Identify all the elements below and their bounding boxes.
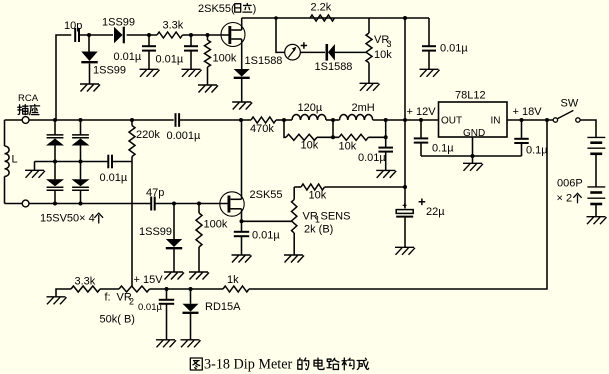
ground (198, 85, 218, 93)
wire 3.3k to gate (183, 34, 229, 36)
wire SW to battery (580, 120, 596, 137)
wire source to VR1 wiper (242, 220, 292, 222)
switch SW (553, 98, 580, 123)
wire meter to D3 (300, 51, 325, 53)
svg-text:10k: 10k (339, 141, 357, 153)
wire D1 to ground (89, 64, 91, 85)
meter M1 (285, 42, 307, 60)
svg-text:): ) (253, 3, 257, 15)
ground stub bottom left (56, 289, 71, 297)
caption (190, 357, 368, 373)
wire 47p to gate (155, 203, 229, 205)
svg-text:10k: 10k (309, 190, 327, 202)
transistor Q1 2SK55 (221, 23, 245, 47)
filter mid tie (331, 120, 335, 139)
wire Q2 drain up (241, 120, 243, 199)
node S (79, 202, 83, 206)
capacitor C6 0.01u (100, 155, 128, 184)
wire mid column (404, 18, 406, 209)
wire IN side (507, 119, 553, 121)
svg-text:3: 3 (387, 39, 392, 49)
svg-text:78L12: 78L12 (455, 90, 486, 102)
battery B2 006P (587, 187, 605, 204)
wire main rail cont (179, 119, 251, 121)
wire (373, 119, 439, 121)
ground (587, 217, 607, 225)
wire D5 to ground (173, 249, 175, 272)
svg-text:2.2k: 2.2k (311, 2, 332, 14)
wire top-left corner (56, 35, 71, 120)
potentiometer VR2 50k (100, 286, 150, 326)
wire C6 to column (112, 161, 132, 163)
ground stub (34, 162, 36, 171)
svg-text:1k: 1k (227, 274, 239, 286)
capacitor C8 0.01u (234, 230, 281, 256)
battery B1 006P (587, 137, 605, 153)
ground (232, 255, 252, 263)
ground (376, 170, 396, 178)
wire battery to ground (595, 204, 597, 217)
resistor R7 220k (129, 120, 160, 162)
wire Q1 drain up (241, 18, 243, 30)
capacitor C13 47p (146, 187, 164, 211)
node C (189, 33, 193, 37)
wire top rail (242, 17, 429, 19)
svg-text:1SS99: 1SS99 (93, 65, 126, 77)
svg-text:0.001µ: 0.001µ (167, 130, 202, 142)
wire bottom rail left (5, 203, 23, 205)
wire (368, 136, 385, 138)
svg-text:+ 12V: + 12V (407, 106, 437, 118)
resistor R3 2.2k (310, 2, 335, 22)
svg-text:0.01µ: 0.01µ (100, 172, 128, 184)
resistor R11 1k (223, 274, 249, 292)
svg-text:+ 15V: + 15V (134, 274, 164, 286)
potentiometer VR3 10k (366, 18, 392, 83)
wire main rail left (5, 119, 23, 121)
node R (53, 202, 57, 206)
wire supply rail right (249, 120, 547, 289)
svg-text:006P: 006P (557, 178, 583, 190)
svg-text:GND: GND (463, 128, 485, 139)
svg-text:2k (B): 2k (B) (304, 224, 333, 236)
ground (232, 102, 252, 110)
svg-text:2: 2 (129, 297, 134, 307)
capacitor C3 0.01u (156, 35, 199, 69)
svg-text:15SV50× 4: 15SV50× 4 (40, 213, 95, 225)
resistor R6 10k (339, 134, 369, 152)
node P (53, 160, 57, 164)
svg-text:1SS99: 1SS99 (139, 226, 172, 238)
inductor L (5, 120, 18, 204)
wire D3 to VR3 wiper (335, 51, 366, 53)
node J (239, 118, 243, 122)
svg-text:1S1588: 1S1588 (315, 61, 353, 73)
svg-text:50k( B): 50k( B) (100, 314, 135, 326)
node V (240, 219, 244, 223)
zener D6 RD15A (183, 289, 242, 313)
regulator U1 78L12 (439, 90, 508, 140)
RCA jack bottom pin (22, 200, 29, 207)
svg-text:0.1µ: 0.1µ (526, 145, 548, 157)
node O (419, 118, 423, 122)
svg-text:47p: 47p (146, 187, 164, 199)
svg-text:0.01µ: 0.01µ (440, 43, 468, 55)
svg-text:220k: 220k (136, 129, 160, 141)
capacitor C5 0.001u (167, 113, 202, 142)
transistor Q2 2SK55 (220, 189, 283, 216)
svg-text:2mH: 2mH (352, 102, 375, 114)
node T (172, 202, 176, 206)
ground (420, 69, 440, 77)
wire VR2 wiper column (131, 162, 133, 287)
svg-text:OUT: OUT (441, 116, 462, 127)
svg-text:SW: SW (561, 98, 579, 110)
inductor L2 2mH (340, 102, 375, 120)
wire between batteries (595, 154, 597, 187)
node U (197, 202, 201, 206)
svg-text:+ 18V: + 18V (513, 106, 543, 118)
svg-text:3.3k: 3.3k (75, 276, 96, 288)
ground (395, 247, 415, 255)
ground (284, 255, 304, 263)
node B (147, 33, 151, 37)
svg-text:0.01µ: 0.01µ (358, 152, 386, 164)
inductor L1 120u (292, 102, 326, 120)
svg-text:f:: f: (105, 292, 111, 304)
label RCA jack (18, 93, 40, 115)
node E (274, 16, 278, 20)
wire cap bottom rail (421, 155, 522, 157)
svg-text:10k: 10k (301, 140, 319, 152)
svg-text:3.3k: 3.3k (163, 20, 184, 32)
wire GND pin (472, 137, 474, 163)
svg-text:120µ: 120µ (298, 102, 323, 114)
wire meter branch (276, 18, 285, 52)
svg-text:100k: 100k (204, 219, 228, 231)
label batteries (557, 178, 583, 205)
node D (206, 33, 210, 37)
ground (189, 272, 209, 280)
wire node A down (88, 35, 90, 52)
wire Q2 source (241, 209, 243, 232)
ground (25, 170, 45, 178)
node Y (189, 287, 193, 291)
diode D1 1SS99 shunt (81, 52, 126, 77)
wire D11 to ground (241, 78, 243, 102)
svg-text:22µ: 22µ (426, 206, 445, 218)
svg-text:100k: 100k (213, 53, 237, 65)
capacitor C4 0.01u (422, 18, 468, 69)
label +15V (134, 274, 164, 286)
capacitor C10 0.1u (414, 120, 454, 156)
node A (87, 33, 91, 37)
diode D11 1S1588 (234, 55, 283, 78)
resistor R4 470k (250, 117, 276, 135)
wire bottom rail (29, 203, 151, 205)
varactor D7 15SV50 (46, 120, 64, 162)
capacitor C12 22u electrolytic (396, 199, 445, 248)
svg-text:RD15A: RD15A (205, 301, 241, 313)
capacitor C11 0.1u (514, 120, 548, 157)
wire (276, 119, 292, 121)
capacitor C2 0.01u (114, 35, 157, 69)
capacitor C9 0.01u (138, 289, 174, 340)
diode D2 1SS99 series (102, 17, 135, 44)
varactor D9 15SV50 (46, 162, 64, 204)
svg-text:0.01µ: 0.01µ (156, 54, 184, 66)
resistor R2 100k (205, 35, 237, 85)
svg-text:470k: 470k (250, 123, 274, 135)
resistor R10 3.3k (71, 276, 100, 293)
svg-text:10p: 10p (64, 20, 82, 32)
ground (360, 83, 380, 91)
capacitor C7 0.01u (358, 148, 393, 171)
wire Q1 source down (241, 39, 243, 69)
wire supply rail (150, 288, 224, 290)
node K (282, 118, 286, 122)
svg-text:0.01µ: 0.01µ (252, 230, 280, 242)
svg-text:3-18 Dip Meter: 3-18 Dip Meter (204, 357, 293, 373)
label varactors (40, 213, 103, 225)
svg-text:2SK55: 2SK55 (250, 189, 283, 201)
wire varactor mid rail (35, 161, 109, 163)
svg-text:IN: IN (491, 116, 501, 127)
node I (130, 118, 134, 122)
svg-text:L: L (12, 154, 18, 166)
svg-text:SENS: SENS (321, 211, 351, 223)
capacitor C1 10p (64, 20, 82, 42)
wire (326, 119, 340, 121)
svg-text:10k: 10k (374, 49, 392, 61)
wire D2 to 3.3k (127, 34, 157, 36)
wire 10p to node (79, 34, 113, 36)
node G (53, 118, 57, 122)
ground (182, 69, 202, 77)
svg-text:1S1588: 1S1588 (245, 55, 283, 67)
wire D6 to ground (190, 313, 192, 340)
node AB (520, 118, 524, 122)
node W (403, 185, 407, 189)
ground (140, 69, 160, 77)
node Z (545, 118, 549, 122)
ground (80, 84, 100, 92)
wire main rail (29, 119, 174, 121)
resistor R8 100k (196, 204, 228, 273)
ground (164, 272, 184, 280)
resistor R5 10k (286, 134, 319, 151)
RCA jack top pin (22, 117, 29, 124)
label Q1 2SK55(HITACHI) (198, 3, 256, 15)
varactor D8 15SV50 (72, 120, 90, 162)
node H (79, 118, 83, 122)
node F (403, 16, 407, 20)
diode D3 1S1588 (315, 44, 353, 73)
svg-text:2SK55(: 2SK55( (198, 3, 235, 15)
node X (165, 287, 169, 291)
filter right tie (384, 120, 388, 148)
ground (156, 340, 176, 348)
wire (317, 136, 339, 138)
resistor R9 10k (294, 184, 405, 202)
ground (47, 297, 67, 305)
svg-text:0.01µ: 0.01µ (114, 51, 142, 63)
node N (403, 118, 407, 122)
lower filter branch left (284, 120, 286, 137)
label +18V (513, 106, 543, 118)
svg-text:1SS99: 1SS99 (102, 17, 135, 29)
node M (384, 118, 388, 122)
ground (463, 163, 483, 171)
svg-text:× 2: × 2 (557, 193, 573, 205)
label +12V (407, 106, 437, 118)
diode D5 1SS99 (139, 204, 182, 249)
resistor R1 3.3k (157, 20, 184, 39)
potentiometer VR1 SENS 2k (292, 187, 351, 255)
node Q (79, 160, 83, 164)
svg-text:0.01µ: 0.01µ (138, 302, 162, 313)
varactor D10 15SV50 (72, 162, 90, 204)
svg-text:0.1µ: 0.1µ (432, 143, 454, 155)
wire (100, 288, 119, 290)
node AA (471, 154, 475, 158)
node L2 (331, 118, 335, 122)
svg-text:RCA: RCA (18, 93, 39, 104)
ground (181, 340, 201, 348)
